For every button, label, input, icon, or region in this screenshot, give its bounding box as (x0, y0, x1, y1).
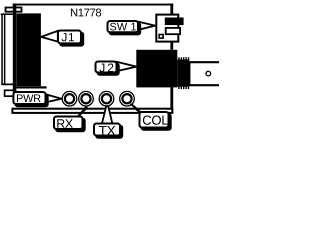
label COL text (143, 116, 168, 125)
top mounting tab (6, 8, 22, 12)
label box SW1 (108, 21, 139, 32)
leader TX (102, 106, 113, 124)
connector J2 BNC body (136, 50, 177, 88)
label box COL shadow (141, 113, 172, 131)
label box RX shadow (55, 118, 85, 133)
label box TX shadow (95, 125, 123, 139)
label SW1 text (110, 23, 136, 31)
wire top edge of enclosure (13, 4, 173, 6)
bottom mounting tab (5, 90, 16, 96)
BNC center pin circle (206, 71, 211, 76)
label box J2 (96, 62, 117, 73)
switch SW1 small notch (159, 35, 163, 39)
switch SW1 outline (156, 15, 178, 42)
label box SW1 shadow (109, 22, 142, 35)
label box J1 shadow (59, 32, 84, 47)
label box J1 (58, 31, 81, 44)
BNC thread teeth bottom (178, 87, 189, 89)
label box PWR shadow (15, 93, 49, 107)
label box PWR (13, 92, 45, 104)
BNC tip barrel (189, 62, 223, 85)
BNC thread teeth top (178, 57, 189, 59)
connector bottom strip (14, 86, 46, 88)
connector J1 body (DB shell) (17, 13, 41, 86)
label J2 text (99, 64, 113, 73)
leader RX (77, 106, 88, 116)
BNC threaded section (177, 59, 189, 86)
wire right edge upper segment (170, 4, 173, 50)
leader arrow J1 (41, 31, 58, 42)
LED PWR circle (62, 91, 77, 106)
LED COL circle (120, 91, 135, 106)
label TX text (99, 126, 115, 135)
enclosure left wall bar (13, 4, 16, 98)
leader arrow J2 (117, 62, 136, 71)
leader arrow SW1 (139, 22, 156, 30)
leader arrow PWR (46, 94, 62, 102)
switch SW1 actuator black bar (165, 18, 184, 26)
bottom lip of enclosure (12, 109, 172, 113)
text N1778 (71, 9, 101, 17)
connector flange plate outline (1, 14, 15, 84)
LED RX circle (79, 91, 94, 106)
label box J2 shadow (97, 63, 120, 76)
flange plate edge lines (2, 15, 5, 85)
label J1 text (62, 33, 74, 41)
switch SW1 actuator white bar (166, 28, 180, 34)
wire right edge lower segment (170, 87, 173, 112)
label RX text (57, 119, 73, 128)
LED TX circle (99, 91, 114, 106)
label box COL (140, 112, 169, 128)
label box TX (94, 124, 120, 136)
label PWR text (17, 95, 41, 103)
label box RX (54, 117, 83, 130)
leader COL (130, 104, 142, 113)
